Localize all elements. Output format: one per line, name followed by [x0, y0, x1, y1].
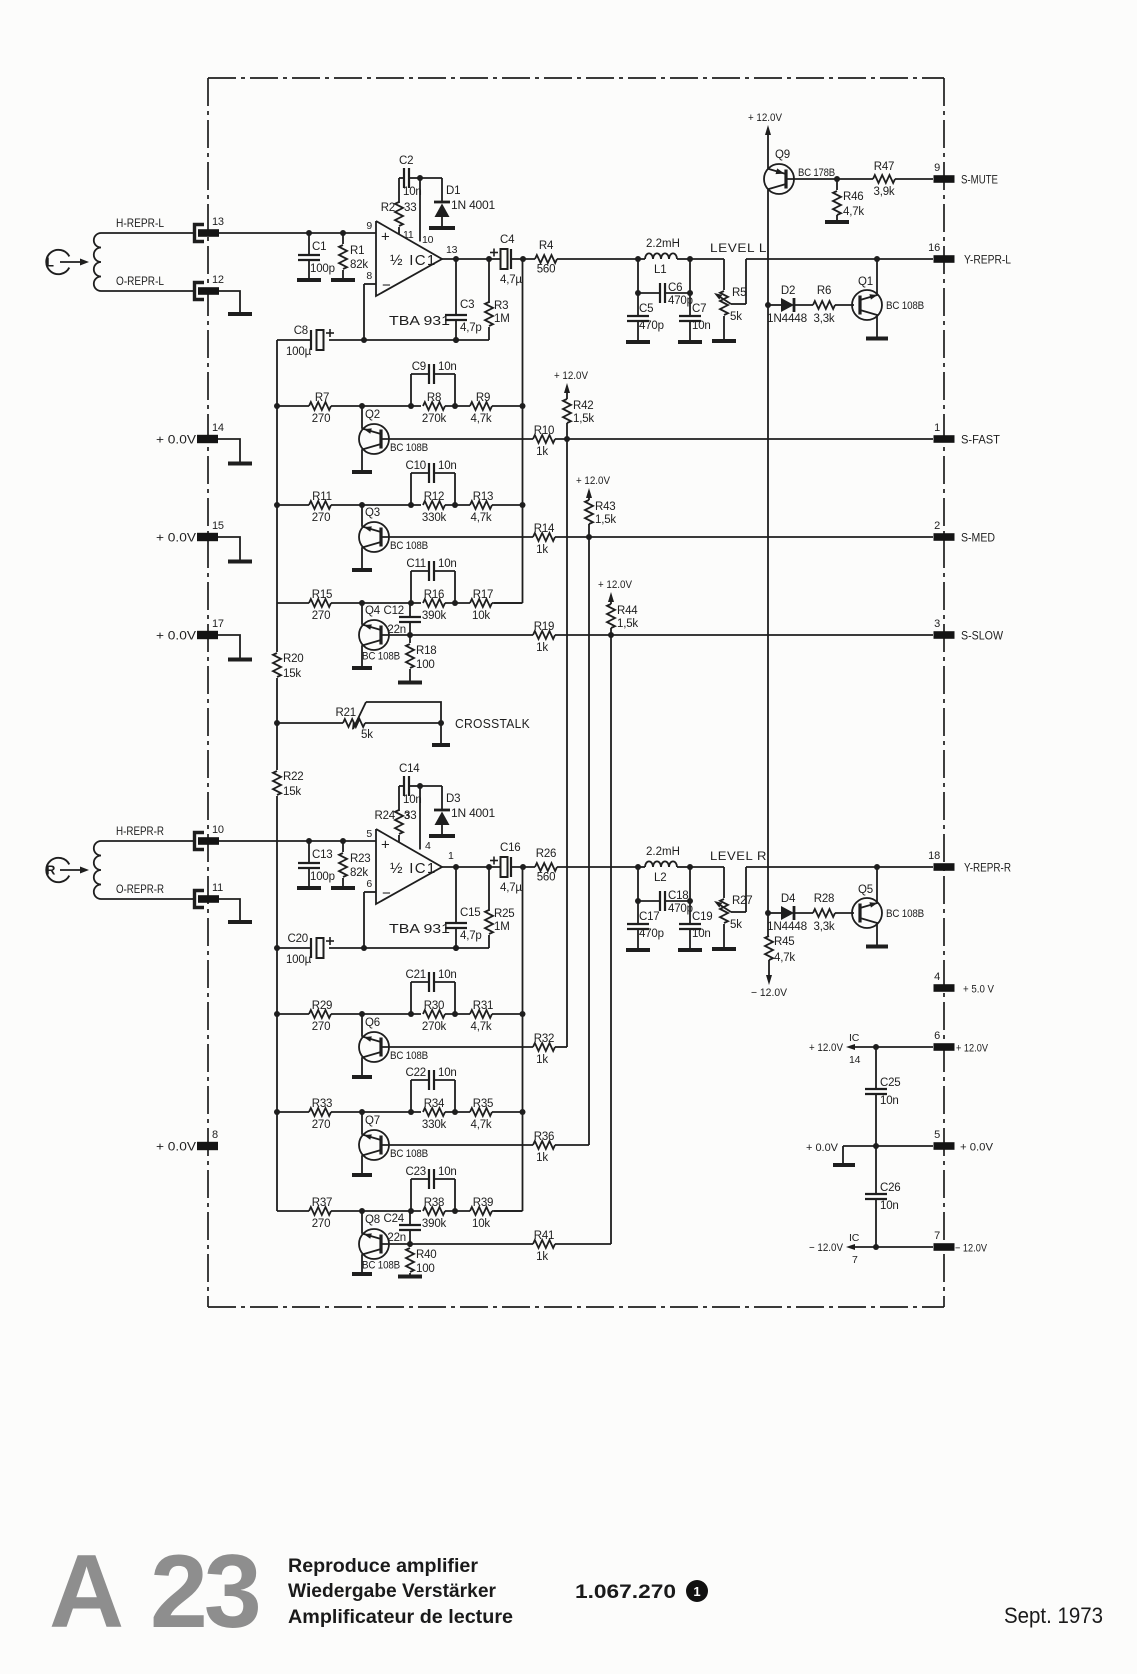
svg-text:L1: L1: [654, 264, 666, 276]
svg-text:C4: C4: [500, 234, 515, 246]
svg-text:R31: R31: [473, 1000, 494, 1012]
svg-text:R22: R22: [283, 771, 304, 783]
svg-text:1,5k: 1,5k: [617, 618, 638, 630]
svg-text:Reproduce amplifier: Reproduce amplifier: [288, 1556, 479, 1577]
svg-text:C18: C18: [668, 890, 689, 902]
svg-text:S-MUTE: S-MUTE: [961, 175, 998, 187]
svg-text:Q3: Q3: [365, 507, 380, 519]
svg-text:8: 8: [212, 1129, 218, 1141]
svg-text:Sept. 1973: Sept. 1973: [1004, 1603, 1103, 1628]
svg-text:C11: C11: [406, 558, 426, 570]
svg-text:1k: 1k: [536, 1251, 548, 1263]
svg-text:10n: 10n: [438, 460, 457, 472]
svg-text:1k: 1k: [536, 642, 548, 654]
svg-text:1,5k: 1,5k: [573, 413, 594, 425]
svg-text:R11: R11: [312, 491, 332, 503]
svg-text:470p: 470p: [668, 903, 693, 915]
svg-text:D4: D4: [781, 893, 796, 905]
svg-text:R43: R43: [595, 501, 616, 513]
svg-text:22n: 22n: [387, 624, 406, 636]
svg-text:100p: 100p: [310, 871, 335, 883]
svg-text:R28: R28: [814, 893, 835, 905]
svg-text:10k: 10k: [472, 610, 490, 622]
svg-text:S-FAST: S-FAST: [961, 435, 1000, 447]
svg-text:R21: R21: [336, 707, 357, 719]
svg-text:C5: C5: [639, 303, 653, 315]
svg-text:C6: C6: [668, 282, 682, 294]
svg-text:C9: C9: [412, 361, 426, 373]
svg-text:4,7p: 4,7p: [460, 322, 482, 334]
svg-text:1N4448: 1N4448: [767, 313, 807, 325]
svg-text:D3: D3: [446, 793, 460, 805]
svg-text:100µ: 100µ: [286, 954, 312, 966]
svg-text:10n: 10n: [880, 1200, 899, 1212]
svg-text:11: 11: [403, 229, 414, 241]
svg-text:270: 270: [312, 512, 331, 524]
svg-text:10n: 10n: [438, 969, 457, 981]
svg-text:C24: C24: [384, 1213, 405, 1225]
svg-text:Q8: Q8: [365, 1214, 380, 1226]
svg-text:10n: 10n: [692, 928, 711, 940]
svg-text:+ 0.0V: + 0.0V: [960, 1142, 994, 1154]
svg-text:4,7k: 4,7k: [843, 206, 864, 218]
svg-text:7: 7: [852, 1254, 858, 1266]
svg-text:+ 0.0V: + 0.0V: [156, 1142, 196, 1154]
svg-text:Q2: Q2: [365, 409, 380, 421]
svg-text:1,5k: 1,5k: [595, 514, 616, 526]
svg-text:10n: 10n: [438, 558, 457, 570]
svg-text:+: +: [381, 229, 390, 246]
svg-text:4,7p: 4,7p: [460, 930, 482, 942]
svg-text:R17: R17: [473, 589, 494, 601]
svg-text:C21: C21: [406, 969, 427, 981]
svg-text:10n: 10n: [403, 186, 422, 198]
svg-text:R: R: [46, 863, 56, 878]
svg-text:560: 560: [537, 264, 556, 276]
svg-text:TBA 931: TBA 931: [389, 313, 450, 328]
svg-text:R33: R33: [312, 1098, 333, 1110]
svg-text:R19: R19: [534, 621, 555, 633]
svg-text:C15: C15: [460, 907, 481, 919]
svg-text:1.067.270: 1.067.270: [575, 1581, 676, 1603]
svg-text:1: 1: [693, 1584, 700, 1599]
svg-text:15k: 15k: [283, 786, 301, 798]
svg-text:4,7k: 4,7k: [774, 952, 795, 964]
svg-text:1M: 1M: [494, 921, 510, 933]
svg-text:1N 4001: 1N 4001: [451, 200, 495, 212]
svg-text:17: 17: [212, 618, 224, 630]
svg-text:5k: 5k: [730, 919, 742, 931]
svg-text:C20: C20: [288, 933, 309, 945]
svg-text:10n: 10n: [438, 361, 457, 373]
svg-text:R20: R20: [283, 653, 304, 665]
svg-text:4: 4: [425, 840, 431, 852]
svg-text:1k: 1k: [536, 446, 548, 458]
svg-text:½ IC1: ½ IC1: [390, 860, 437, 877]
svg-text:R27: R27: [732, 895, 753, 907]
svg-text:330k: 330k: [422, 1119, 447, 1131]
svg-text:BC 108B: BC 108B: [886, 300, 924, 312]
svg-text:6: 6: [366, 878, 372, 890]
svg-text:+ 0.0V: + 0.0V: [156, 631, 196, 643]
svg-text:+ 12.0V: + 12.0V: [809, 1042, 844, 1054]
svg-text:Q5: Q5: [858, 884, 873, 896]
svg-text:1k: 1k: [536, 1152, 548, 1164]
svg-text:R37: R37: [312, 1197, 333, 1209]
svg-text:+ 12.0V: + 12.0V: [956, 1043, 989, 1055]
svg-text:9: 9: [366, 220, 372, 232]
svg-text:3,3k: 3,3k: [814, 921, 835, 933]
svg-text:R42: R42: [573, 400, 594, 412]
svg-text:C1: C1: [312, 241, 326, 253]
svg-text:− 12.0V: − 12.0V: [751, 987, 788, 999]
svg-text:2: 2: [934, 520, 940, 532]
svg-text:R29: R29: [312, 1000, 333, 1012]
svg-text:4,7k: 4,7k: [471, 413, 492, 425]
svg-text:R5: R5: [732, 287, 746, 299]
svg-text:5: 5: [934, 1129, 940, 1141]
svg-text:+ 12.0V: + 12.0V: [576, 475, 611, 487]
svg-text:+ 0.0V: + 0.0V: [806, 1142, 839, 1154]
svg-text:R7: R7: [315, 392, 329, 404]
svg-text:270: 270: [312, 1119, 331, 1131]
svg-text:15: 15: [212, 520, 224, 532]
svg-text:1N 4001: 1N 4001: [451, 808, 495, 820]
svg-text:13: 13: [212, 216, 224, 228]
svg-text:1: 1: [934, 422, 940, 434]
svg-text:R2: R2: [381, 202, 395, 214]
svg-text:15k: 15k: [283, 668, 301, 680]
svg-text:4,7k: 4,7k: [471, 512, 492, 524]
svg-text:R6: R6: [817, 285, 831, 297]
svg-text:C2: C2: [399, 155, 413, 167]
svg-text:100p: 100p: [310, 263, 335, 275]
svg-text:C10: C10: [406, 460, 427, 472]
svg-text:2.2mH: 2.2mH: [646, 238, 680, 250]
svg-text:470p: 470p: [668, 295, 693, 307]
svg-text:C3: C3: [460, 299, 474, 311]
svg-text:R3: R3: [494, 300, 508, 312]
svg-text:4,7k: 4,7k: [471, 1119, 492, 1131]
svg-text:2.2mH: 2.2mH: [646, 846, 680, 858]
svg-text:Q9: Q9: [775, 149, 790, 161]
svg-text:− 12.0V: − 12.0V: [955, 1243, 988, 1255]
svg-text:BC 108B: BC 108B: [362, 651, 400, 663]
svg-text:R18: R18: [416, 645, 437, 657]
svg-text:−: −: [382, 885, 391, 902]
svg-text:3,9k: 3,9k: [874, 186, 895, 198]
svg-text:D1: D1: [446, 185, 460, 197]
svg-text:LEVEL R: LEVEL R: [710, 849, 767, 863]
svg-text:CROSSTALK: CROSSTALK: [455, 717, 530, 731]
svg-text:C13: C13: [312, 849, 333, 861]
svg-text:R36: R36: [534, 1131, 555, 1143]
svg-text:5k: 5k: [730, 311, 742, 323]
svg-text:BC 108B: BC 108B: [390, 1148, 428, 1160]
svg-text:H-REPR-L: H-REPR-L: [116, 216, 164, 230]
svg-text:H-REPR-R: H-REPR-R: [116, 824, 164, 838]
svg-text:+ 0.0V: + 0.0V: [156, 533, 196, 545]
svg-text:390k: 390k: [422, 1218, 447, 1230]
svg-text:R30: R30: [424, 1000, 445, 1012]
svg-text:Q6: Q6: [365, 1017, 380, 1029]
svg-text:10n: 10n: [692, 320, 711, 332]
svg-text:7: 7: [934, 1230, 940, 1242]
svg-text:8: 8: [366, 270, 372, 282]
svg-text:Y-REPR-L: Y-REPR-L: [964, 255, 1012, 267]
svg-text:Q7: Q7: [365, 1115, 380, 1127]
svg-text:R46: R46: [843, 191, 864, 203]
svg-text:Q1: Q1: [858, 276, 873, 288]
svg-text:R10: R10: [534, 425, 555, 437]
svg-text:C26: C26: [880, 1182, 901, 1194]
svg-text:R40: R40: [416, 1249, 437, 1261]
svg-text:R26: R26: [536, 848, 557, 860]
svg-text:R14: R14: [534, 523, 555, 535]
svg-text:R13: R13: [473, 491, 494, 503]
svg-text:4,7k: 4,7k: [471, 1021, 492, 1033]
svg-text:TBA 931: TBA 931: [389, 921, 450, 936]
svg-text:5k: 5k: [361, 729, 373, 741]
svg-text:BC 178B: BC 178B: [798, 167, 835, 179]
svg-text:270: 270: [312, 413, 331, 425]
svg-text:Wiedergabe Verstärker: Wiedergabe Verstärker: [288, 1581, 497, 1602]
svg-text:R38: R38: [424, 1197, 445, 1209]
svg-text:3,3k: 3,3k: [814, 313, 835, 325]
svg-text:R47: R47: [874, 161, 895, 173]
svg-text:R15: R15: [312, 589, 333, 601]
svg-text:C8: C8: [294, 325, 308, 337]
svg-text:100: 100: [416, 1263, 435, 1275]
svg-text:IC: IC: [849, 1232, 860, 1244]
svg-text:1: 1: [448, 850, 454, 862]
svg-text:D2: D2: [781, 285, 795, 297]
svg-text:R16: R16: [424, 589, 445, 601]
svg-text:270: 270: [312, 1021, 331, 1033]
svg-text:10: 10: [212, 824, 224, 836]
svg-text:+ 12.0V: + 12.0V: [748, 112, 783, 124]
svg-text:R45: R45: [774, 936, 795, 948]
svg-text:+ 12.0V: + 12.0V: [554, 370, 589, 382]
svg-text:C16: C16: [500, 842, 521, 854]
svg-text:− 12.0V: − 12.0V: [809, 1242, 844, 1254]
svg-text:1k: 1k: [536, 1054, 548, 1066]
svg-text:4: 4: [934, 971, 940, 983]
svg-text:10n: 10n: [403, 794, 422, 806]
svg-text:R8: R8: [427, 392, 441, 404]
svg-text:C12: C12: [384, 605, 405, 617]
svg-text:IC: IC: [849, 1032, 860, 1044]
svg-text:L2: L2: [654, 872, 666, 884]
svg-text:S-MED: S-MED: [961, 533, 995, 545]
svg-text:10k: 10k: [472, 1218, 490, 1230]
svg-text:560: 560: [537, 872, 556, 884]
svg-text:12: 12: [212, 274, 224, 286]
svg-text:C19: C19: [692, 911, 713, 923]
svg-text:+: +: [381, 837, 390, 854]
svg-text:10n: 10n: [438, 1067, 457, 1079]
svg-text:10: 10: [422, 234, 434, 246]
svg-text:A: A: [49, 1534, 124, 1650]
svg-text:18: 18: [928, 850, 940, 862]
svg-text:10n: 10n: [438, 1166, 457, 1178]
svg-text:4,7µ: 4,7µ: [500, 274, 522, 286]
svg-text:R34: R34: [424, 1098, 445, 1110]
svg-text:BC 108B: BC 108B: [390, 1050, 428, 1062]
svg-text:23: 23: [150, 1534, 259, 1650]
svg-text:14: 14: [849, 1054, 861, 1066]
svg-text:14: 14: [212, 422, 224, 434]
svg-text:R39: R39: [473, 1197, 494, 1209]
svg-text:100: 100: [416, 659, 435, 671]
svg-text:16: 16: [928, 242, 940, 254]
svg-text:L: L: [46, 255, 54, 270]
svg-text:+ 5.0 V: + 5.0 V: [963, 984, 995, 996]
svg-text:3: 3: [934, 618, 940, 630]
svg-text:C14: C14: [399, 763, 420, 775]
svg-text:Q4: Q4: [365, 605, 381, 617]
svg-text:R41: R41: [534, 1230, 555, 1242]
svg-text:9: 9: [934, 162, 940, 174]
svg-text:33: 33: [404, 810, 416, 822]
svg-text:Y-REPR-R: Y-REPR-R: [964, 863, 1011, 875]
svg-text:4,7µ: 4,7µ: [500, 882, 522, 894]
svg-text:C23: C23: [406, 1166, 427, 1178]
svg-text:LEVEL L: LEVEL L: [710, 241, 767, 255]
svg-text:5: 5: [366, 828, 372, 840]
svg-text:270k: 270k: [422, 1021, 447, 1033]
svg-text:1k: 1k: [536, 544, 548, 556]
svg-text:1N4448: 1N4448: [767, 921, 807, 933]
svg-text:S-SLOW: S-SLOW: [961, 631, 1003, 643]
svg-text:1M: 1M: [494, 313, 510, 325]
svg-text:470p: 470p: [639, 928, 664, 940]
svg-text:13: 13: [446, 244, 458, 256]
svg-text:R4: R4: [539, 240, 554, 252]
svg-text:C25: C25: [880, 1077, 901, 1089]
svg-text:BC 108B: BC 108B: [362, 1260, 400, 1272]
svg-text:+ 12.0V: + 12.0V: [598, 579, 633, 591]
svg-text:270: 270: [312, 610, 331, 622]
svg-text:R35: R35: [473, 1098, 494, 1110]
svg-text:R32: R32: [534, 1033, 555, 1045]
svg-text:R24: R24: [375, 810, 396, 822]
svg-text:½ IC1: ½ IC1: [390, 252, 437, 269]
svg-text:Amplificateur de lecture: Amplificateur de lecture: [288, 1607, 513, 1628]
svg-text:390k: 390k: [422, 610, 447, 622]
svg-text:BC 108B: BC 108B: [390, 540, 428, 552]
svg-text:C22: C22: [406, 1067, 427, 1079]
svg-text:R9: R9: [476, 392, 490, 404]
svg-text:270k: 270k: [422, 413, 447, 425]
svg-text:BC 108B: BC 108B: [886, 908, 924, 920]
svg-text:6: 6: [934, 1030, 940, 1042]
svg-text:33: 33: [404, 202, 416, 214]
svg-text:BC 108B: BC 108B: [390, 442, 428, 454]
svg-text:470p: 470p: [639, 320, 664, 332]
svg-text:330k: 330k: [422, 512, 447, 524]
svg-text:R23: R23: [350, 853, 371, 865]
svg-text:11: 11: [212, 882, 223, 894]
svg-text:R25: R25: [494, 908, 515, 920]
svg-text:100µ: 100µ: [286, 346, 312, 358]
svg-text:R12: R12: [424, 491, 445, 503]
svg-text:C17: C17: [639, 911, 660, 923]
svg-text:R44: R44: [617, 605, 638, 617]
svg-text:270: 270: [312, 1218, 331, 1230]
svg-text:22n: 22n: [387, 1232, 406, 1244]
svg-text:R1: R1: [350, 245, 364, 257]
svg-text:O-REPR-R: O-REPR-R: [116, 882, 164, 896]
svg-text:+ 0.0V: + 0.0V: [156, 435, 196, 447]
svg-text:−: −: [382, 277, 391, 294]
svg-text:10n: 10n: [880, 1095, 899, 1107]
svg-text:C7: C7: [692, 303, 706, 315]
svg-text:O-REPR-L: O-REPR-L: [116, 274, 164, 288]
